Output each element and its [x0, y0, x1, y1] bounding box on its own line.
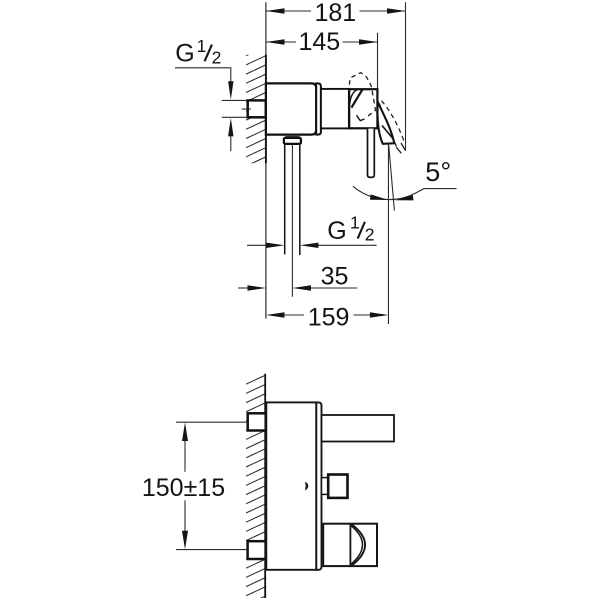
lever accent line [382, 126, 393, 139]
mixer main body (side view) [266, 83, 316, 134]
svg-text:G: G [327, 217, 346, 245]
5 degree arc with leader [353, 186, 457, 199]
dimension 145 [266, 41, 296, 43]
dashed lever tip [401, 143, 405, 150]
svg-text:150±15: 150±15 [142, 474, 225, 502]
svg-text:2: 2 [212, 48, 222, 68]
cartridge dome arc [350, 90, 358, 105]
outlet neck (dark) under body [286, 135, 300, 138]
body plate (front) [266, 402, 316, 569]
dashed knob outline (swung position) [349, 73, 375, 118]
cartridge neck [321, 89, 349, 128]
svg-text:1: 1 [350, 212, 360, 232]
svg-text:35: 35 [321, 263, 349, 291]
svg-text:145: 145 [298, 28, 340, 56]
lever (solid, curved) [377, 101, 394, 144]
knob face V mark [357, 115, 365, 120]
svg-text:G: G [175, 40, 194, 68]
handle (end-on) [323, 524, 377, 566]
diverter knob tab [322, 478, 329, 495]
wall hatching top view [246, 47, 266, 176]
svg-text:159: 159 [308, 304, 350, 332]
svg-text:1: 1 [197, 36, 207, 56]
arc arrowheads [370, 194, 388, 200]
outlet pipe walls [284, 144, 286, 255]
lower arrow of inlet callout [228, 118, 233, 136]
body end ring [316, 83, 321, 134]
wall face line front view [264, 374, 266, 598]
svg-text:181: 181 [314, 0, 356, 27]
diverter knob square [328, 475, 347, 498]
svg-text:5°: 5° [425, 157, 451, 187]
dimension 181 [266, 10, 311, 12]
cartridge sleeve strip [316, 402, 321, 569]
knob edge diagonal [352, 89, 363, 107]
svg-text:2: 2 [365, 224, 375, 244]
lever rod (down position) [368, 129, 375, 178]
outlet pipe centreline [291, 145, 293, 297]
inlet nipple through wall (G 1/2) [248, 100, 266, 117]
bottom inlet union through wall [248, 541, 266, 559]
dashed lever upper curve [382, 101, 405, 142]
nipple centre tick [242, 108, 251, 110]
outlet cap [284, 138, 301, 144]
neck end line [348, 89, 351, 128]
dashed lever lower curve [380, 104, 397, 147]
dimension 150±15 [176, 421, 248, 423]
handle base escutcheon [349, 89, 377, 128]
wall hatching front view [246, 375, 266, 600]
dimension 159 [284, 314, 304, 316]
nipple edge extension lines [222, 99, 248, 101]
shower arm pipe [322, 415, 395, 442]
extension line right for 145 [377, 33, 379, 89]
extension line right for 181 [405, 2, 407, 151]
top inlet union through wall [248, 413, 266, 430]
handle grip separation line [349, 524, 351, 566]
marking on plate [305, 482, 309, 491]
wall face line top view (also dimension extension line) [265, 2, 267, 318]
5 degree tilted line [389, 144, 395, 211]
5 degree construction vertical line [387, 144, 389, 325]
handle end cap arcs [351, 525, 363, 564]
leader for G 1/2 inlet [175, 68, 231, 83]
